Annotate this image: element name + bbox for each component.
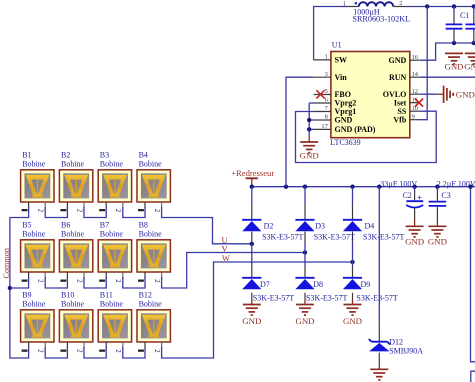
wire series link row2 col2-3 [84, 277, 106, 288]
pin 14 RUN [410, 76, 420, 78]
junction gnd-node/C1b [472, 41, 475, 45]
junction VOUT/C1b [472, 4, 475, 8]
svg-text:1: 1 [343, 1, 346, 8]
junction rail/Vin [284, 185, 288, 189]
wire series link row2 col1-2 [45, 277, 67, 288]
pin 7 Vprg1 [314, 111, 331, 113]
svg-text:Bobine: Bobine [22, 160, 46, 169]
coil B4 (Bobine) [137, 151, 170, 213]
diode D2 [242, 219, 261, 221]
diode D12 (TVS) [372, 341, 388, 343]
svg-text:SW: SW [335, 56, 347, 65]
pin 9 Vfb [410, 119, 420, 121]
wire SW to L1 [314, 7, 349, 60]
pin 8 GND [314, 119, 331, 121]
svg-text:Vin: Vin [335, 73, 348, 82]
svg-text:GND: GND [428, 237, 447, 247]
wire common bus row2 junction to row3 [10, 288, 29, 358]
wire row2 to V [162, 253, 305, 289]
junction rail/C2 [412, 185, 416, 189]
pin 3 Vin [314, 76, 331, 78]
svg-text:B11: B11 [100, 291, 113, 300]
junction VOUT/Vfb riser [425, 4, 429, 8]
wire row2 left to common bus [10, 277, 29, 288]
svg-text:B1: B1 [22, 151, 31, 160]
svg-text:S3K-E3-57T: S3K-E3-57T [314, 232, 355, 241]
svg-text:16: 16 [412, 54, 418, 61]
wire series link row3 col1-2 [45, 347, 67, 358]
svg-text:Bobine: Bobine [100, 300, 124, 309]
svg-text:GND (PAD): GND (PAD) [335, 125, 376, 134]
junction rail/D3 [303, 185, 307, 189]
ground sideways at OVLO [443, 86, 445, 103]
pin 16 GND [410, 59, 420, 61]
junction gnd-node/C1 [452, 41, 456, 45]
svg-text:Bobine: Bobine [100, 160, 124, 169]
svg-text:Bobine: Bobine [139, 230, 163, 239]
wire series link row3 col2-3 [84, 347, 106, 358]
svg-text:D7: D7 [260, 280, 270, 289]
wire series link row1 col2-3 [84, 207, 106, 218]
svg-text:3: 3 [325, 71, 328, 78]
svg-text:U1: U1 [332, 41, 342, 50]
pin 17 GND (PAD) [314, 128, 331, 130]
junction common bus / row2 [8, 286, 12, 290]
coil B8 (Bobine) [137, 221, 170, 284]
svg-text:Bobine: Bobine [61, 300, 85, 309]
svg-text:GND: GND [242, 316, 261, 326]
coil B2 (Bobine) [59, 151, 92, 213]
wire rail to D2 [251, 187, 253, 204]
svg-text:2: 2 [114, 209, 121, 213]
svg-text:Bobine: Bobine [22, 300, 46, 309]
junction bus/pin8 [307, 118, 311, 122]
ground under D12 [378, 353, 380, 368]
svg-text:B3: B3 [100, 151, 109, 160]
svg-text:9: 9 [412, 113, 415, 120]
svg-text:D4: D4 [365, 221, 375, 230]
wire SS to Vprg1 loop [296, 111, 437, 162]
svg-text:Bobine: Bobine [22, 230, 46, 239]
svg-text:2: 2 [37, 279, 44, 283]
ground under diode at x=305.0 [304, 293, 306, 299]
svg-text:+Redresseur: +Redresseur [231, 168, 274, 178]
junction rail/D4 [350, 185, 354, 189]
coil B5 (Bobine) [21, 221, 54, 284]
coil B6 (Bobine) [59, 221, 92, 284]
svg-text:D3: D3 [315, 221, 325, 230]
ground under diode at x=352.5 [352, 293, 354, 299]
junction V / D3 column [303, 250, 307, 254]
wire pin16 GND to C1 ground node [419, 43, 475, 60]
wire series link row2 col3-4 [123, 277, 145, 288]
svg-text:C3: C3 [441, 191, 450, 200]
wire rail to D12 [378, 187, 380, 323]
diode D7 [242, 277, 261, 279]
svg-text:12: 12 [412, 88, 418, 95]
svg-text:2: 2 [114, 349, 121, 353]
svg-text:C2: C2 [403, 191, 412, 200]
svg-text:17: 17 [321, 123, 328, 130]
svg-text:S3K-E3-57T: S3K-E3-57T [306, 293, 347, 302]
coil B11 (Bobine) [98, 291, 131, 354]
svg-text:8: 8 [325, 114, 328, 121]
pin 6 Vprg2 [314, 102, 331, 104]
svg-text:B7: B7 [100, 221, 109, 230]
svg-text:S3K-E3-57T: S3K-E3-57T [356, 293, 397, 302]
capacitor C1 [453, 7, 455, 14]
ground at right edge (clipped) [465, 52, 475, 54]
svg-text:D2: D2 [264, 221, 274, 230]
svg-text:RUN: RUN [389, 73, 407, 82]
svg-text:B2: B2 [61, 151, 70, 160]
wire Vfb to VOUT [419, 7, 427, 120]
svg-text:Vfb: Vfb [393, 115, 406, 124]
svg-text:S3K-E3-57T: S3K-E3-57T [262, 232, 303, 241]
wire +Redresseur rail [252, 186, 475, 188]
svg-text:2: 2 [75, 349, 82, 353]
svg-text:2: 2 [75, 279, 82, 283]
svg-text:2.2µF 100V: 2.2µF 100V [437, 179, 475, 188]
ground under pins 8/17 [308, 129, 310, 136]
wire row3 to W [162, 262, 353, 358]
junction rail/C3 [435, 185, 439, 189]
wire rail to bottom-right exit [471, 187, 475, 362]
svg-text:2: 2 [153, 209, 160, 213]
wire series link row1 col3-4 [123, 207, 145, 218]
svg-text:Common: Common [2, 248, 11, 278]
svg-text:1: 1 [325, 54, 328, 61]
svg-text:B4: B4 [139, 151, 148, 160]
svg-text:B5: B5 [22, 221, 31, 230]
pin 5 FBO [314, 94, 331, 96]
coil B12 (Bobine) [137, 291, 170, 354]
svg-text:SRR0603-102KL: SRR0603-102KL [352, 15, 410, 24]
svg-text:GND: GND [405, 237, 424, 247]
inductor L1 1000uH SRR0603-102KL [348, 6, 359, 8]
ground under C1 [445, 52, 463, 54]
wire rail to D3 [304, 187, 306, 204]
svg-text:33µF 100V: 33µF 100V [380, 179, 417, 188]
svg-text:D9: D9 [361, 280, 371, 289]
svg-text:B6: B6 [61, 221, 70, 230]
IC U1 LTC3639 [331, 52, 410, 138]
svg-text:Bobine: Bobine [139, 300, 163, 309]
svg-text:Bobine: Bobine [61, 160, 85, 169]
svg-text:V: V [222, 243, 229, 253]
junction VOUT/C1 [452, 4, 456, 8]
svg-text:B8: B8 [139, 221, 148, 230]
capacitor C2 33uF 100V [414, 187, 416, 191]
wire Vprg2-GND-PAD bus [309, 102, 313, 104]
coil B3 (Bobine) [98, 151, 131, 213]
svg-text:S3K-E3-57T: S3K-E3-57T [253, 293, 294, 302]
svg-text:14: 14 [412, 71, 419, 78]
wire row1 left to common bus [10, 207, 29, 288]
svg-text:GND: GND [444, 61, 463, 71]
pin 12 OVLO [410, 93, 420, 95]
svg-text:+: + [417, 193, 422, 202]
svg-text:GND: GND [456, 89, 475, 99]
no-connect X on FBO [316, 90, 324, 98]
svg-text:2: 2 [75, 209, 82, 213]
svg-text:2: 2 [399, 0, 402, 7]
ground under diode at x=251.8 [251, 293, 253, 299]
svg-text:GND: GND [295, 316, 314, 326]
wire series link row1 col1-2 [45, 207, 67, 218]
svg-text:5: 5 [325, 88, 328, 95]
coil B9 (Bobine) [21, 291, 54, 354]
svg-text:D8: D8 [313, 280, 323, 289]
diode D9 [343, 277, 362, 279]
svg-text:Bobine: Bobine [61, 230, 85, 239]
diode D3 [295, 219, 314, 221]
svg-text:2: 2 [114, 279, 121, 283]
coil B7 (Bobine) [98, 221, 131, 284]
coil B10 (Bobine) [59, 291, 92, 354]
svg-text:GND: GND [300, 151, 319, 161]
svg-text:GND: GND [389, 56, 407, 65]
svg-text:B10: B10 [61, 291, 74, 300]
svg-text:GND: GND [464, 61, 475, 71]
wire OVLO to ground [419, 93, 437, 95]
svg-text:6: 6 [325, 97, 328, 104]
svg-text:B9: B9 [22, 291, 31, 300]
svg-text:B12: B12 [139, 291, 152, 300]
wire D2 anode to D7 [251, 232, 253, 242]
junction rail/right exit [468, 185, 472, 189]
wire D3 anode to D8 [304, 232, 306, 242]
svg-text:Bobine: Bobine [139, 160, 163, 169]
diode D4 [343, 219, 362, 221]
coil B1 (Bobine) [21, 151, 54, 213]
capacitor at right edge (clipped) [473, 7, 475, 14]
svg-text:D12: D12 [389, 337, 403, 346]
svg-text:LTC3639: LTC3639 [330, 138, 360, 147]
wire row1 to U [162, 207, 252, 244]
svg-text:S3K-E3-57T: S3K-E3-57T [363, 232, 404, 241]
svg-text:2: 2 [37, 209, 44, 213]
pin 11 Iset [410, 102, 420, 104]
wire L1 to VOUT rail [406, 6, 475, 8]
junction U / D2 column [250, 242, 254, 246]
pin 1 SW [314, 59, 331, 61]
junction rail/D12 [377, 185, 381, 189]
wire D4 anode to D9 [352, 232, 354, 242]
svg-text:2: 2 [153, 349, 160, 353]
svg-text:2: 2 [153, 279, 160, 283]
wire rail to D4 [352, 187, 354, 204]
wire RUN to right edge [419, 76, 475, 78]
junction rail/port [250, 185, 254, 189]
svg-text:SMBJ90A: SMBJ90A [389, 346, 423, 355]
diode D8 [295, 277, 314, 279]
capacitor C3 2.2uF 100V [436, 187, 438, 191]
wire series link row3 col3-4 [123, 347, 145, 358]
wire bottom-right stub [471, 371, 475, 382]
svg-text:Bobine: Bobine [100, 230, 124, 239]
svg-text:C1: C1 [460, 11, 469, 20]
svg-text:2: 2 [37, 349, 44, 353]
junction W / D4 column [350, 260, 354, 264]
wire Vin to +Redresseur rail [286, 77, 314, 187]
pin 10 SS [410, 110, 420, 112]
svg-text:GND: GND [343, 316, 362, 326]
junction bus/pin17 [307, 127, 311, 131]
no-connect X on Iset [415, 99, 423, 107]
svg-text:GND: GND [335, 116, 353, 125]
svg-text:W: W [222, 253, 231, 263]
